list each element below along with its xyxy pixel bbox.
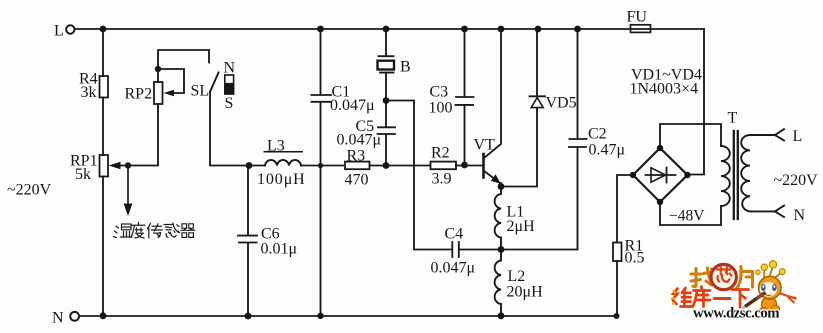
crystal B	[379, 29, 394, 126]
wire RP1 to bottom rail	[102, 177, 104, 317]
svg-text:N: N	[224, 60, 236, 77]
svg-text:2μH: 2μH	[507, 218, 536, 235]
resistor R2	[431, 162, 457, 170]
svg-text:5k: 5k	[75, 166, 91, 183]
watermark mascot	[742, 261, 796, 314]
inductor L1	[495, 187, 501, 250]
potentiometer RP2	[154, 82, 163, 104]
svg-text:RP2: RP2	[125, 86, 153, 103]
svg-text:100: 100	[429, 100, 453, 117]
svg-text:1N4003×4: 1N4003×4	[630, 81, 699, 98]
svg-text:R2: R2	[431, 145, 450, 162]
svg-text:www.dzsc.com: www.dzsc.com	[693, 305, 780, 321]
wire switch SL lower to mid rail	[210, 92, 265, 166]
svg-text:C2: C2	[588, 126, 607, 143]
svg-text:FU: FU	[627, 9, 648, 26]
wire RP2 wiper short	[158, 69, 184, 93]
wire R4 to RP1	[102, 98, 104, 156]
svg-text:L2: L2	[508, 268, 526, 285]
svg-text:C4: C4	[445, 226, 464, 243]
svg-text:L: L	[54, 23, 64, 40]
magnet symbol	[225, 75, 234, 94]
svg-text:VT: VT	[474, 137, 496, 154]
watermark 找芯片	[691, 267, 753, 288]
transformer core	[734, 131, 738, 219]
svg-text:N: N	[794, 207, 806, 224]
transformer T secondary winding	[741, 135, 775, 211]
wire bottom rail N	[79, 315, 617, 317]
node L terminal	[66, 25, 74, 33]
svg-text:20μH: 20μH	[507, 284, 544, 301]
node N terminal	[70, 312, 79, 321]
capacitor C4	[452, 242, 501, 257]
svg-text:~220V: ~220V	[774, 172, 819, 189]
svg-text:N: N	[52, 310, 64, 327]
wire L3 to R3	[301, 165, 343, 167]
fuse FU	[631, 25, 651, 33]
wire bridge bottom to transformer primary bottom	[660, 202, 721, 225]
label 湿度传感器 (humidity sensor)	[114, 223, 195, 239]
svg-text:−48V: −48V	[669, 208, 705, 225]
RP2 wiper arrow	[164, 90, 175, 96]
bridge rectifier VD1-VD4	[633, 148, 688, 202]
wire bridge top to transformer primary	[660, 124, 721, 148]
svg-text:VD5: VD5	[546, 95, 577, 112]
inductor L2	[495, 250, 501, 317]
wire top rail L	[75, 28, 705, 30]
svg-text:3.9: 3.9	[432, 171, 452, 188]
diode VD5	[530, 29, 546, 96]
svg-text:SL: SL	[191, 83, 210, 100]
wire left column x=103	[102, 29, 104, 76]
svg-text:100μH: 100μH	[257, 171, 306, 188]
switch SL blade	[210, 73, 219, 93]
resistor R3	[345, 162, 370, 170]
svg-text:R3: R3	[347, 148, 366, 165]
resistor R4	[100, 76, 109, 98]
bridge diode symbol	[646, 168, 676, 183]
svg-text:0.047μ: 0.047μ	[431, 260, 476, 277]
svg-text:470: 470	[345, 172, 369, 189]
node output L connector	[775, 129, 784, 140]
svg-text:0.047μ: 0.047μ	[330, 97, 375, 114]
transistor emitter arrow	[491, 174, 501, 183]
svg-text:B: B	[400, 59, 411, 76]
capacitor C1	[312, 29, 332, 316]
L3 label underline	[264, 151, 304, 153]
watermark sparkle	[672, 290, 676, 304]
svg-text:L3: L3	[267, 138, 285, 155]
svg-text:0.47μ: 0.47μ	[589, 142, 626, 159]
wire RP1 wiper to RP2 bottom	[119, 104, 158, 166]
svg-text:3k: 3k	[81, 84, 97, 101]
RP1 wiper arrow	[109, 162, 121, 169]
watermark 维库一下	[673, 287, 749, 308]
svg-text:S: S	[225, 95, 234, 112]
transistor VT	[482, 154, 485, 178]
svg-text:0.5: 0.5	[625, 250, 645, 267]
capacitor C5	[378, 127, 396, 165]
wire VT emitter node to VD5	[501, 108, 537, 187]
capacitor C6	[238, 166, 257, 317]
wire R2 to VT base	[456, 165, 483, 167]
sensor arrow	[127, 166, 129, 206]
svg-text:0.047μ: 0.047μ	[337, 132, 382, 149]
wire R3 to R2	[370, 165, 431, 167]
resistor R1	[616, 261, 618, 316]
node output N connector	[775, 206, 784, 217]
svg-text:C3: C3	[430, 84, 449, 101]
capacitor C3	[456, 29, 474, 166]
transformer T primary winding	[721, 146, 730, 206]
svg-text:0.01μ: 0.01μ	[261, 241, 298, 258]
watermark magnifier circle with 芯	[711, 264, 736, 289]
capacitor C2	[501, 29, 587, 250]
wire RP2 top to switch	[158, 50, 209, 82]
svg-text:T: T	[728, 110, 738, 127]
wire B junction to C4	[386, 101, 452, 250]
wire top rail to bridge right vertex	[688, 29, 704, 175]
svg-text:~220V: ~220V	[7, 182, 52, 199]
potentiometer RP1	[100, 155, 109, 177]
inductor L3	[265, 160, 301, 166]
svg-text:L: L	[793, 128, 803, 145]
